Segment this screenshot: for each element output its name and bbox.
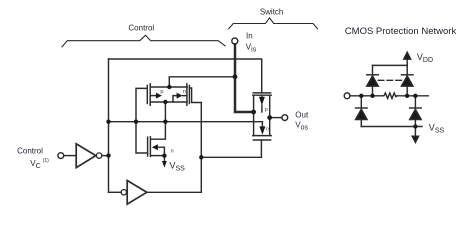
wire top-right FET gate jog: [189, 88, 201, 103]
wire VSS rail: [361, 126, 422, 128]
svg-text:n: n: [266, 126, 269, 132]
svg-text:Vos: Vos: [295, 121, 308, 132]
svg-text:Vis: Vis: [246, 43, 257, 54]
wire right segment: [397, 95, 428, 97]
op-amp U1 inverter 1: [64, 155, 76, 157]
wire VDD rail: [373, 64, 408, 66]
wire top pair top stub: [151, 86, 187, 88]
node j13: [370, 94, 374, 98]
wire internal node y122: [109, 121, 263, 123]
transistor Qp top-left p-FET: [146, 86, 148, 104]
wire switch left lead: [253, 95, 255, 135]
node j12: [359, 94, 363, 98]
wire dashed distributed diode: [378, 79, 401, 81]
node input terminal: [344, 93, 350, 99]
resistor R: [383, 93, 398, 98]
diode D1 up-left: [372, 86, 374, 96]
transistor Qn top-right n-FET: [186, 84, 188, 106]
node j8: [251, 110, 256, 115]
node j1: [106, 120, 110, 124]
svg-text:Out: Out: [295, 110, 309, 119]
wire gate tee at x136 down: [136, 122, 148, 153]
power VDD arrow: [406, 59, 408, 65]
wire switch right lead: [269, 95, 271, 135]
node j10: [199, 155, 203, 159]
wire gate tee at x136 up: [136, 88, 147, 121]
wire left vertical: [108, 59, 110, 192]
node j11: [162, 153, 166, 157]
svg-text:Control: Control: [128, 23, 154, 32]
svg-text:Switch: Switch: [260, 8, 284, 17]
ground VSS arrow center: [163, 156, 165, 161]
node j15: [413, 94, 417, 98]
wire top pair source riser / bottom FET drain: [151, 102, 166, 139]
node j6: [167, 85, 171, 89]
node j5: [163, 100, 167, 104]
svg-text:p: p: [265, 107, 268, 113]
svg-text:VC(1): VC(1): [30, 158, 49, 170]
svg-text:Control: Control: [17, 147, 43, 156]
wire top pair bottom stub: [151, 101, 187, 103]
node VC terminal: [58, 153, 64, 159]
node j4: [163, 120, 167, 124]
node Out terminal: [282, 115, 288, 121]
node j9: [267, 115, 272, 120]
node j7: [233, 74, 238, 79]
transistor switch p-FET: [253, 92, 270, 94]
diode D2 up-right: [406, 86, 408, 96]
node j14: [405, 94, 409, 98]
wire top pair drain riser: [169, 77, 235, 87]
wire inv2 out to n gate: [201, 156, 261, 158]
wire left segment: [350, 95, 383, 97]
svg-text:In: In: [246, 31, 253, 40]
brace Switch: [229, 18, 318, 29]
wire bottom FET source: [151, 155, 165, 157]
brace Control: [62, 35, 225, 47]
wire inverter2 output: [147, 191, 202, 193]
node j2: [106, 153, 110, 157]
wire inverter2 input: [109, 191, 122, 193]
diode D4 down-right: [414, 96, 416, 108]
svg-text:CMOS Protection Network: CMOS Protection Network: [345, 26, 457, 37]
node j16: [413, 124, 417, 128]
svg-text:VDD: VDD: [417, 52, 433, 64]
svg-text:n: n: [183, 89, 186, 95]
svg-text:VSS: VSS: [429, 123, 445, 135]
svg-text:n: n: [171, 148, 174, 154]
wire Out: [270, 117, 282, 119]
transistor Qn bottom n-FET: [147, 137, 149, 156]
wire n switch gate lead: [260, 140, 262, 157]
wire top rail to p switch gate: [109, 59, 262, 93]
op-amp U2 inverter 2: [121, 190, 126, 195]
wire In path: [235, 44, 254, 112]
svg-text:p: p: [160, 89, 163, 95]
junction dots: [106, 74, 417, 159]
wire mid vertical: [200, 103, 202, 193]
transistor switch n-FET: [253, 135, 271, 137]
power VSS arrow right: [414, 127, 416, 137]
diode D3 down-left: [360, 96, 362, 108]
svg-text:VSS: VSS: [170, 160, 186, 172]
node In terminal: [232, 38, 238, 44]
node j3: [134, 120, 138, 124]
